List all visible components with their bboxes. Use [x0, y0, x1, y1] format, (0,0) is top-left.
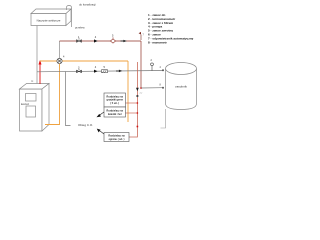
svg-text:kocioł: kocioł	[21, 102, 29, 106]
flow arrow right on top pipe (black)	[121, 40, 127, 43]
wire: dark red down pipe to tank coil	[140, 41, 142, 88]
pump stem wire	[59, 41, 61, 58]
svg-text:zasobnik: zasobnik	[175, 85, 187, 89]
wire: branch to manifold 1	[126, 102, 138, 104]
manifold box 3	[104, 133, 129, 142]
tank top port dot	[162, 69, 164, 71]
check valve (filled triangle)	[94, 70, 98, 73]
svg-text:( 5 szt. ): ( 5 szt. )	[110, 102, 119, 105]
valve 5 (bowtie with stem) on top pipe	[110, 35, 115, 44]
wire: orange return drop from pump to boiler	[45, 64, 60, 125]
svg-text:Rozdzielacz na: Rozdzielacz na	[107, 111, 124, 113]
svg-text:zw: zw	[140, 93, 143, 95]
pump U1 (circle with impeller)	[57, 56, 65, 64]
expansion vessel (naczynie wzbiorcze)	[31, 9, 71, 26]
air vent 7 at top right corner	[139, 32, 145, 40]
junction dot red	[137, 126, 139, 128]
arrow from manifold 2 to label	[97, 112, 105, 117]
svg-text:grzejniki gorne: grzejniki gorne	[107, 100, 124, 102]
tank lower port dot	[162, 87, 164, 89]
manifold box 2	[104, 107, 126, 117]
valve with filter 3	[77, 69, 82, 73]
svg-text:ogrzew. ( szt. ): ogrzew. ( szt. )	[109, 138, 125, 141]
legend	[148, 13, 194, 44]
tank drain stub	[161, 109, 166, 128]
thermo-manometer 2 on line near tank	[151, 59, 154, 71]
wire: red riser to manifolds	[129, 62, 137, 137]
wire: top distribution pipe (dark red)	[60, 40, 142, 42]
flow arrow down (black)	[136, 88, 139, 92]
flow arrow up	[39, 60, 42, 65]
boiler (kociol)	[20, 84, 50, 132]
junction dot	[140, 87, 142, 89]
valve 1 on top pipe	[77, 38, 82, 42]
wire: orange down pipe to manifolds	[127, 61, 129, 122]
svg-text:Rozdzielacz na: Rozdzielacz na	[108, 136, 125, 138]
arrow from manifold 3 to label	[97, 129, 104, 134]
svg-text:do kanalizacji: do kanalizacji	[79, 3, 96, 7]
wire: coil return line to tank	[141, 87, 163, 89]
wire: vessel drop pipe	[36, 26, 38, 85]
wire: cold water feed riser	[66, 72, 71, 126]
wire: boiler supply riser (red)	[39, 61, 41, 84]
overflow gooseneck pipe	[67, 6, 72, 28]
svg-text:8 - manometr: 8 - manometr	[148, 40, 168, 44]
storage tank (zasobnik)	[166, 63, 197, 110]
manifold box 1	[104, 93, 126, 107]
flow arrow right on cold water line (black)	[116, 70, 122, 73]
wire: branch to manifold 2	[126, 112, 138, 114]
svg-text:Obieg C.O.: Obieg C.O.	[78, 123, 93, 127]
small fitting dot	[136, 95, 138, 97]
svg-text:Rozdzielacz na: Rozdzielacz na	[107, 97, 124, 99]
check valve (filled triangle) on top pipe	[94, 39, 98, 42]
block 5 (hatched rect)	[102, 66, 108, 73]
svg-text:lazienki i hol: lazienki i hol	[108, 114, 122, 116]
wire: cold water horizontal line	[37, 71, 163, 72]
svg-text:przelew: przelew	[75, 26, 86, 30]
wire: supply header horizontal (orange)	[40, 60, 128, 62]
svg-text:Naczynie wzbiorcze: Naczynie wzbiorcze	[37, 19, 61, 23]
